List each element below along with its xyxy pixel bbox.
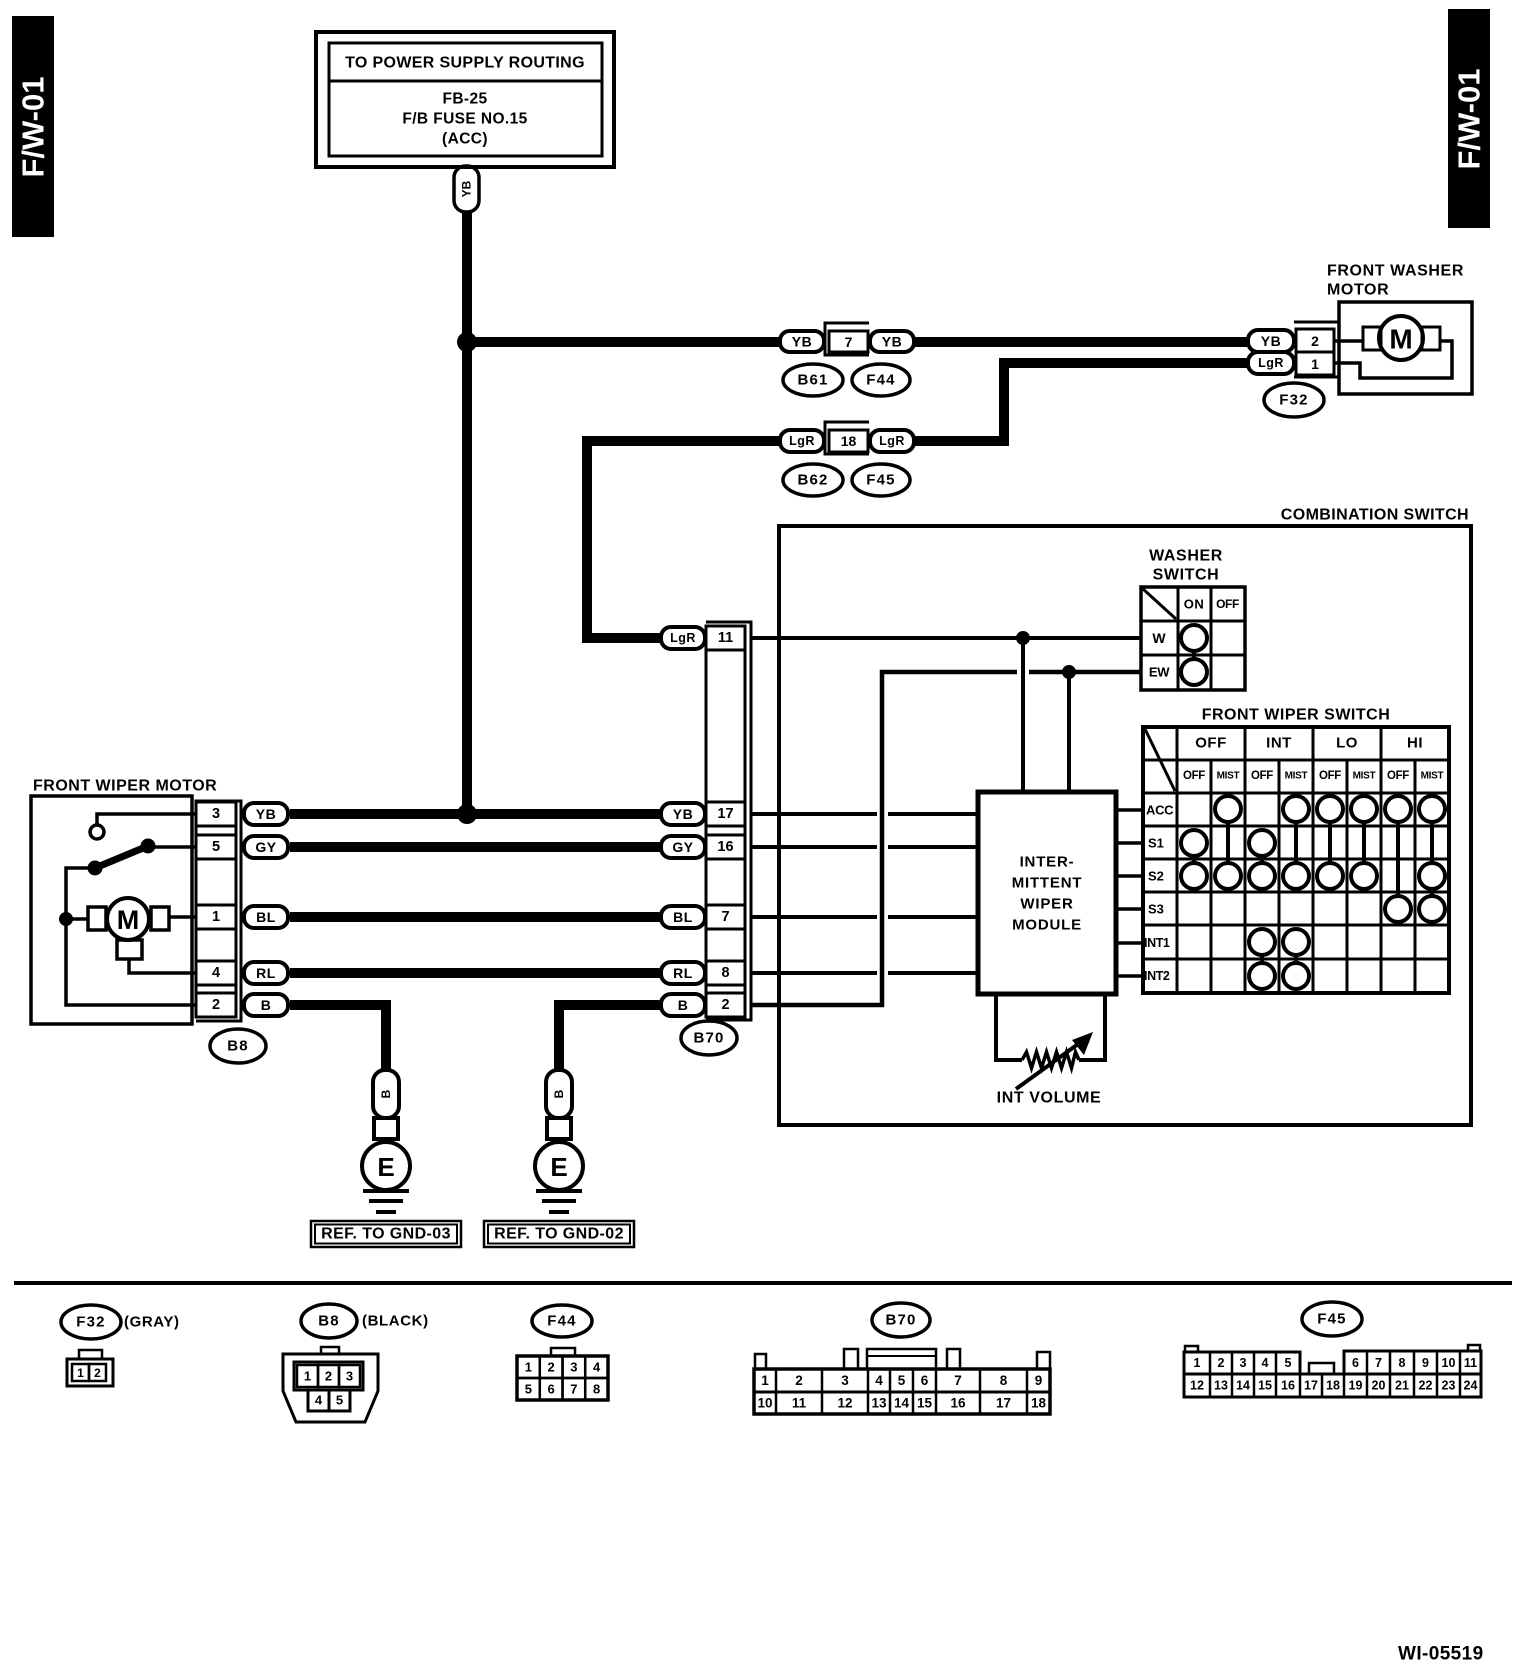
- svg-text:2: 2: [1311, 333, 1319, 349]
- svg-text:S1: S1: [1148, 836, 1164, 851]
- contact INT2 col4: [1283, 963, 1309, 989]
- svg-text:BL: BL: [673, 909, 693, 925]
- svg-text:M: M: [1389, 324, 1412, 355]
- ref box REF. TO GND-03: [311, 1221, 461, 1247]
- svg-text:F45: F45: [866, 472, 895, 489]
- svg-text:B8: B8: [227, 1038, 249, 1055]
- svg-text:B: B: [261, 997, 272, 1013]
- resistor zigzag INT VOLUME: [1022, 1052, 1079, 1068]
- front wiper switch table grid: [1143, 727, 1449, 993]
- junction dot W branch: [1016, 631, 1030, 645]
- svg-text:M: M: [117, 905, 140, 935]
- module stub to S3: [1116, 907, 1143, 911]
- svg-text:21: 21: [1395, 1379, 1409, 1393]
- svg-text:B: B: [379, 1089, 393, 1098]
- svg-text:ACC: ACC: [1146, 803, 1174, 818]
- svg-text:1: 1: [761, 1373, 769, 1388]
- wire LgR pin11 to washer switch W: [752, 636, 1141, 640]
- ground strokes REF. TO GND-03: [363, 1191, 409, 1212]
- F45 pinout housing: [1185, 1345, 1480, 1374]
- wire YB pin17 to module: [752, 812, 877, 816]
- contact link col6: [1362, 822, 1366, 863]
- svg-text:6: 6: [547, 1382, 554, 1397]
- svg-text:19: 19: [1349, 1379, 1363, 1393]
- wire pin2 to motor brush: [1334, 339, 1363, 343]
- svg-text:B70: B70: [885, 1312, 916, 1329]
- svg-text:9: 9: [1035, 1373, 1043, 1388]
- svg-text:F32: F32: [76, 1314, 105, 1331]
- svg-text:S3: S3: [1148, 902, 1164, 917]
- svg-text:3: 3: [1240, 1356, 1247, 1370]
- contact link col8: [1430, 822, 1434, 863]
- motor M1 left brush: [1363, 327, 1381, 350]
- wire GY pin16 to module: [752, 845, 877, 849]
- svg-text:OFF: OFF: [1195, 735, 1227, 752]
- svg-text:B62: B62: [797, 472, 828, 489]
- svg-text:17: 17: [1304, 1379, 1318, 1393]
- svg-text:13: 13: [871, 1396, 887, 1411]
- svg-text:B8: B8: [318, 1313, 340, 1330]
- wire YB to front washer motor: [914, 337, 1248, 347]
- wire label YB at B70 pin17: [661, 803, 705, 825]
- svg-text:MIST: MIST: [1353, 771, 1376, 782]
- svg-text:F44: F44: [547, 1313, 576, 1330]
- park switch fixed contact: [90, 825, 104, 839]
- svg-text:MOTOR: MOTOR: [1327, 282, 1389, 299]
- svg-text:E: E: [550, 1152, 567, 1182]
- svg-text:7: 7: [1375, 1356, 1382, 1370]
- svg-text:12: 12: [837, 1396, 852, 1411]
- contact S1 col3: [1249, 830, 1275, 856]
- junction dot power/washer branch: [457, 332, 477, 352]
- ref box REF. TO GND-02: [484, 1221, 634, 1247]
- F32 pinout pin 1: [72, 1364, 89, 1381]
- wire label RL at B70 pin8: [661, 962, 705, 984]
- svg-text:INTER-: INTER-: [1020, 854, 1075, 871]
- svg-text:W: W: [1152, 630, 1166, 646]
- svg-text:4: 4: [1262, 1356, 1269, 1370]
- svg-text:5: 5: [898, 1373, 906, 1388]
- svg-text:5: 5: [525, 1382, 532, 1397]
- svg-text:WIPER: WIPER: [1020, 896, 1073, 913]
- svg-text:YB: YB: [256, 806, 276, 822]
- contact link col5: [1328, 822, 1332, 863]
- svg-text:10: 10: [1442, 1356, 1456, 1370]
- B8 pinout housing: [283, 1347, 378, 1422]
- svg-text:9: 9: [1422, 1356, 1429, 1370]
- connector F32 pin 2: [1296, 329, 1334, 352]
- motor M1 right brush: [1422, 327, 1440, 350]
- svg-text:22: 22: [1419, 1379, 1433, 1393]
- svg-text:8: 8: [1399, 1356, 1406, 1370]
- power supply routing box: [316, 32, 614, 167]
- svg-text:ON: ON: [1184, 597, 1205, 612]
- svg-text:2: 2: [721, 997, 729, 1013]
- svg-text:6: 6: [1352, 1356, 1359, 1370]
- svg-text:(BLACK): (BLACK): [362, 1313, 429, 1330]
- svg-text:8: 8: [1000, 1373, 1008, 1388]
- contact S2 col4: [1283, 863, 1309, 889]
- connector F32 pin 1: [1296, 352, 1334, 375]
- motor M2 left brush: [88, 907, 106, 930]
- svg-text:3: 3: [570, 1360, 577, 1375]
- contact S2 col3: [1249, 863, 1275, 889]
- svg-text:LO: LO: [1336, 735, 1358, 752]
- svg-text:E: E: [377, 1152, 394, 1182]
- svg-text:LgR: LgR: [670, 631, 696, 645]
- contact ACC col8: [1419, 796, 1445, 822]
- wire label LgR at B70 pin11: [661, 627, 705, 649]
- svg-text:LgR: LgR: [879, 434, 905, 448]
- svg-text:BL: BL: [256, 909, 276, 925]
- wire EW branch to module: [1067, 672, 1071, 792]
- svg-text:20: 20: [1372, 1379, 1386, 1393]
- svg-text:OFF: OFF: [1251, 770, 1273, 782]
- svg-text:2: 2: [94, 1366, 101, 1380]
- svg-text:EW: EW: [1149, 665, 1170, 680]
- svg-text:18: 18: [841, 433, 857, 449]
- svg-text:3: 3: [212, 806, 220, 822]
- svg-text:OFF: OFF: [1387, 770, 1409, 782]
- front wiper switch headers: [1183, 735, 1444, 783]
- svg-text:WASHER: WASHER: [1149, 548, 1223, 565]
- junction dot power/wiper-motor: [457, 804, 477, 824]
- contact link col8: [1430, 889, 1434, 896]
- svg-text:16: 16: [950, 1396, 966, 1411]
- washer switch contact EW-ON: [1181, 659, 1207, 685]
- wire label B at B8 pin2: [244, 994, 288, 1016]
- svg-text:WI-05519: WI-05519: [1398, 1644, 1484, 1665]
- svg-text:8: 8: [593, 1382, 600, 1397]
- ground symbol E REF. TO GND-02: [535, 1139, 583, 1190]
- connector ellipse F44: [852, 364, 910, 396]
- wire EW after crossing: [1029, 670, 1141, 675]
- svg-text:MIST: MIST: [1421, 771, 1444, 782]
- svg-text:INT: INT: [1266, 735, 1292, 752]
- connector ellipse B70 bottom: [872, 1303, 930, 1337]
- contact link col1: [1192, 856, 1196, 863]
- connector bracket B62/F45: [825, 422, 869, 454]
- svg-text:23: 23: [1442, 1379, 1456, 1393]
- svg-text:7: 7: [721, 909, 729, 925]
- svg-text:6: 6: [921, 1373, 929, 1388]
- connector ellipse B8: [210, 1029, 266, 1063]
- svg-text:YB: YB: [792, 334, 812, 350]
- svg-text:4: 4: [875, 1373, 883, 1388]
- svg-text:YB: YB: [1261, 333, 1281, 349]
- svg-text:11: 11: [718, 630, 733, 646]
- svg-text:11: 11: [1464, 1356, 1477, 1370]
- contact S2 col2: [1215, 863, 1241, 889]
- svg-text:YB: YB: [882, 334, 902, 350]
- wire BL pin7 after crossing: [888, 915, 978, 919]
- svg-text:24: 24: [1464, 1379, 1478, 1393]
- B70 pinout pins row1: [761, 1369, 1042, 1392]
- svg-text:16: 16: [717, 839, 733, 855]
- svg-text:YB: YB: [673, 806, 693, 822]
- svg-text:B: B: [678, 997, 689, 1013]
- wire label GY at B8 pin5: [244, 836, 288, 858]
- svg-text:11: 11: [792, 1396, 807, 1411]
- motor M2 third terminal: [117, 940, 142, 959]
- connector ellipse B61: [783, 364, 843, 396]
- svg-text:7: 7: [570, 1382, 577, 1397]
- contact link col3: [1260, 856, 1264, 863]
- B70 pinout housing: [754, 1349, 1050, 1414]
- contact INT1 col3: [1249, 929, 1275, 955]
- wire power vertical YB: [462, 211, 472, 814]
- B70 pinout pins row2: [757, 1392, 1046, 1414]
- svg-text:18: 18: [1326, 1379, 1340, 1393]
- svg-text:4: 4: [315, 1393, 323, 1408]
- svg-text:14: 14: [1236, 1379, 1250, 1393]
- svg-text:REF. TO GND-03: REF. TO GND-03: [321, 1226, 451, 1243]
- wire RL pin8 after crossing: [888, 971, 978, 975]
- contact ACC col4: [1283, 796, 1309, 822]
- junction dot EW branch: [1062, 665, 1076, 679]
- contact link col7: [1396, 822, 1400, 896]
- contact link col4: [1294, 955, 1298, 963]
- wire label LgR at F45: [870, 430, 914, 452]
- connector ellipse F45: [852, 464, 910, 496]
- contact ACC col5: [1317, 796, 1343, 822]
- connector ellipse F45 bottom: [1302, 1302, 1362, 1336]
- svg-text:MIST: MIST: [1285, 771, 1308, 782]
- svg-text:12: 12: [1190, 1379, 1204, 1393]
- wire right brush to pin1: [169, 915, 196, 919]
- contact link col3: [1260, 955, 1264, 963]
- connector pin box 18: [829, 430, 868, 452]
- page tab F/W-01 right: [1448, 9, 1490, 228]
- F44 pinout pins: [517, 1356, 608, 1400]
- wire label BL at B70 pin7: [661, 906, 705, 928]
- svg-text:15: 15: [917, 1396, 933, 1411]
- svg-text:16: 16: [1281, 1379, 1295, 1393]
- module stub to INT2: [1116, 974, 1143, 978]
- connector bracket B61/F44: [825, 323, 869, 355]
- motor M1 symbol: [1379, 316, 1423, 360]
- svg-text:7: 7: [845, 334, 853, 350]
- svg-text:14: 14: [894, 1396, 910, 1411]
- svg-text:COMBINATION SWITCH: COMBINATION SWITCH: [1281, 507, 1469, 524]
- contact S3 col8: [1419, 896, 1445, 922]
- connector ellipse B62: [783, 464, 843, 496]
- contact INT2 col3: [1249, 963, 1275, 989]
- wire pin1 loop to motor brush: [1334, 341, 1452, 378]
- connector ellipse F44 bottom: [532, 1305, 592, 1337]
- svg-text:MITTENT: MITTENT: [1012, 875, 1083, 892]
- svg-text:5: 5: [336, 1393, 343, 1408]
- wire label GY at B70 pin16: [661, 836, 705, 858]
- svg-text:4: 4: [593, 1360, 601, 1375]
- connector B8 column: [196, 801, 236, 1017]
- svg-text:INT VOLUME: INT VOLUME: [997, 1090, 1102, 1107]
- int volume loop left: [996, 994, 1022, 1060]
- svg-text:F44: F44: [866, 372, 895, 389]
- connector F32 bracket: [1294, 322, 1339, 377]
- combination switch box: [779, 526, 1471, 1125]
- wire pin3 to park contact: [97, 814, 196, 824]
- svg-text:MODULE: MODULE: [1012, 917, 1082, 934]
- svg-text:LgR: LgR: [789, 434, 815, 448]
- svg-text:OFF: OFF: [1183, 770, 1205, 782]
- int volume loop right: [1079, 994, 1105, 1060]
- wire label YB at B8 pin3: [244, 803, 288, 825]
- motor M2 right brush: [151, 907, 169, 930]
- connector B70 bracket: [706, 622, 751, 1020]
- ground symbol E REF. TO GND-03: [362, 1139, 410, 1190]
- contact ACC col7: [1385, 796, 1411, 822]
- svg-text:18: 18: [1031, 1396, 1047, 1411]
- svg-text:FB-25: FB-25: [442, 91, 487, 108]
- wire label B at B70 pin2: [661, 994, 705, 1016]
- svg-text:RL: RL: [673, 965, 693, 981]
- svg-text:FRONT WIPER MOTOR: FRONT WIPER MOTOR: [33, 778, 217, 795]
- separator line: [14, 1281, 1512, 1285]
- ground terminal B label REF. TO GND-02: [546, 1070, 572, 1118]
- svg-text:B61: B61: [797, 372, 828, 389]
- svg-text:1: 1: [212, 909, 220, 925]
- F45 pinout pins row2: [1184, 1374, 1481, 1397]
- front washer motor box: [1339, 302, 1472, 394]
- svg-text:FRONT WASHER: FRONT WASHER: [1327, 263, 1464, 280]
- ground connector REF. TO GND-03: [374, 1118, 398, 1139]
- svg-text:1: 1: [304, 1369, 311, 1384]
- svg-text:F/B FUSE NO.15: F/B FUSE NO.15: [402, 111, 527, 128]
- svg-text:INT2: INT2: [1144, 969, 1170, 983]
- contact S2 col5: [1317, 863, 1343, 889]
- connector B8 bracket: [196, 801, 241, 1021]
- wire label YB at F32: [1248, 330, 1294, 352]
- svg-text:MIST: MIST: [1217, 771, 1240, 782]
- ground terminal B label REF. TO GND-03: [373, 1070, 399, 1118]
- svg-text:3: 3: [346, 1369, 353, 1384]
- svg-text:15: 15: [1258, 1379, 1272, 1393]
- potentiometer arrow: [1016, 1032, 1093, 1089]
- wire BL B8 to B70: [290, 912, 660, 922]
- svg-text:1: 1: [525, 1360, 532, 1375]
- park switch arm: [88, 839, 156, 876]
- svg-text:OFF: OFF: [1216, 597, 1239, 611]
- wire W branch to module: [1021, 638, 1025, 792]
- wire B B70 to ground GND-02: [559, 1005, 660, 1069]
- ground connector REF. TO GND-02: [547, 1118, 571, 1139]
- connector ellipse F32: [1264, 383, 1324, 417]
- contact S2 col1: [1181, 863, 1207, 889]
- svg-text:2: 2: [1218, 1356, 1225, 1370]
- wire label YB vertical: [454, 166, 479, 212]
- svg-text:10: 10: [757, 1396, 772, 1411]
- intermittent wiper module box: [978, 792, 1116, 994]
- module stub to ACC: [1116, 808, 1143, 812]
- wire YB B8 to B70: [290, 809, 660, 819]
- washer switch table: [1141, 587, 1245, 690]
- svg-text:4: 4: [212, 965, 220, 981]
- wire YB pin17 after crossing: [888, 812, 978, 816]
- connector ellipse B8 bottom: [301, 1304, 357, 1338]
- junction dot motor ground: [59, 912, 73, 926]
- module stub to INT1: [1116, 941, 1143, 945]
- svg-text:GY: GY: [672, 839, 693, 855]
- svg-text:13: 13: [1214, 1379, 1228, 1393]
- wire label YB at F44: [870, 331, 914, 352]
- wire pin5 to switch arm: [148, 845, 196, 849]
- svg-text:2: 2: [547, 1360, 554, 1375]
- svg-text:F/W-01: F/W-01: [16, 77, 51, 178]
- washer switch label: [1149, 548, 1223, 584]
- F32 pinout pin 2: [89, 1364, 106, 1381]
- svg-text:S2: S2: [1148, 869, 1164, 884]
- contact S3 col7: [1385, 896, 1411, 922]
- svg-text:B70: B70: [693, 1030, 724, 1047]
- svg-text:5: 5: [1285, 1356, 1292, 1370]
- svg-text:YB: YB: [460, 180, 474, 197]
- F32 pinout housing: [67, 1350, 113, 1386]
- svg-text:1: 1: [77, 1366, 84, 1380]
- front wiper switch row labels: [1144, 803, 1174, 984]
- wire B pin2 to washer switch EW: [752, 672, 1017, 1005]
- svg-text:2: 2: [212, 997, 220, 1013]
- svg-text:HI: HI: [1407, 735, 1423, 752]
- wire arm to ground bus: [66, 868, 196, 1005]
- connector B70 column: [706, 626, 745, 1017]
- svg-text:LgR: LgR: [1258, 356, 1284, 370]
- svg-text:F45: F45: [1317, 1311, 1346, 1328]
- wire left brush: [66, 917, 88, 921]
- F45 pinout pins row1 left: [1184, 1352, 1300, 1374]
- wire label LgR at F32: [1248, 352, 1294, 374]
- connector ellipse F32 bottom: [61, 1305, 121, 1339]
- svg-text:2: 2: [795, 1373, 803, 1388]
- svg-text:8: 8: [721, 965, 729, 981]
- contact ACC col6: [1351, 796, 1377, 822]
- svg-text:1: 1: [1311, 356, 1319, 372]
- svg-text:SWITCH: SWITCH: [1153, 567, 1220, 584]
- wire label RL at B8 pin4: [244, 962, 288, 984]
- svg-text:OFF: OFF: [1319, 770, 1341, 782]
- contact link col4: [1294, 822, 1298, 863]
- svg-text:17: 17: [717, 806, 733, 822]
- wire label BL at B8 pin1: [244, 906, 288, 928]
- contact link col2: [1226, 822, 1230, 863]
- wire label YB at B61: [780, 331, 824, 352]
- F45 pinout pins row1 right: [1344, 1351, 1481, 1374]
- contact S2 col6: [1351, 863, 1377, 889]
- wire GY pin16 after crossing: [888, 845, 978, 849]
- front wiper motor box: [31, 796, 192, 1024]
- svg-text:F32: F32: [1279, 392, 1308, 409]
- wire B B8 to ground GND-03: [290, 1005, 386, 1069]
- svg-text:F/W-01: F/W-01: [1452, 69, 1487, 170]
- washer contact link: [1192, 651, 1196, 659]
- wire YB to connector B61: [467, 337, 780, 347]
- contact INT1 col4: [1283, 929, 1309, 955]
- washer switch contact W-ON: [1181, 625, 1207, 651]
- svg-text:INT1: INT1: [1144, 936, 1170, 950]
- B8 pinout row1: [294, 1362, 363, 1390]
- svg-text:(ACC): (ACC): [442, 131, 488, 148]
- wire RL pin8 to module: [752, 971, 877, 975]
- svg-text:3: 3: [841, 1373, 849, 1388]
- wire third terminal to pin4: [129, 959, 196, 973]
- contact ACC col2: [1215, 796, 1241, 822]
- svg-text:FRONT WIPER SWITCH: FRONT WIPER SWITCH: [1202, 707, 1391, 724]
- ground strokes REF. TO GND-02: [536, 1191, 582, 1212]
- page tab F/W-01 left: [12, 16, 54, 237]
- wire BL pin7 to module: [752, 915, 877, 919]
- svg-text:REF. TO GND-02: REF. TO GND-02: [494, 1226, 624, 1243]
- F44 pinout housing: [517, 1348, 608, 1400]
